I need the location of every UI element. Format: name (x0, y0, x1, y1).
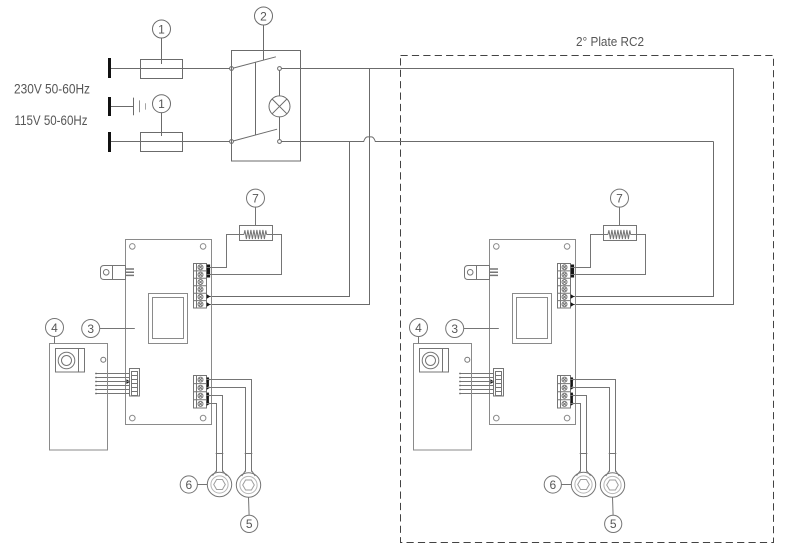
svg-text:1: 1 (158, 22, 165, 36)
wire L pin through fuse F1 to switch (111, 68, 230, 70)
mains terminal pin L (top, black bar) (108, 58, 111, 78)
earth wire (111, 106, 134, 108)
fuse F2 body (141, 133, 183, 152)
wire L: switch to 2nd plate (top rail) (281, 68, 733, 70)
switch mechanical link (255, 62, 257, 135)
leader line label 1 (F1) (161, 38, 163, 64)
indicator lamp wire lower (279, 117, 281, 140)
wire plate2 L: down to TB1-6 (571, 69, 734, 305)
label circle 1 (F2) (153, 95, 171, 113)
plate 1 module (46, 189, 282, 532)
switch pole 1 blade (233, 57, 276, 68)
mains terminal pin earth (middle, black bar) (108, 97, 111, 116)
switch pole 2 blade (233, 129, 277, 141)
switch pole 1 contact right (278, 67, 282, 71)
switch pole 1 contact left (230, 67, 234, 71)
fuse F1 body (141, 60, 183, 79)
svg-text:230V 50-60Hz: 230V 50-60Hz (14, 81, 90, 97)
mains terminal pin N (bottom, black bar) (108, 132, 111, 152)
wire N: switch to 2nd plate with hop over tap (281, 137, 713, 142)
wire N pin through fuse F2 to switch (111, 141, 230, 143)
svg-text:115V 50-60Hz: 115V 50-60Hz (15, 112, 88, 128)
switch pole 2 contact right (278, 140, 282, 144)
svg-text:2: 2 (260, 9, 267, 23)
switch pole 2 contact left (230, 140, 234, 144)
switch S1 (item 2) box (232, 51, 301, 162)
svg-text:2° Plate RC2: 2° Plate RC2 (576, 34, 644, 49)
earth symbol (134, 98, 146, 116)
indicator lamp wire upper (279, 70, 281, 96)
dashed enclosure 2nd plate RC2 (401, 56, 774, 543)
label circle 1 (F1) (153, 20, 171, 38)
wire plate2 N: down to TB1-5 (571, 142, 714, 297)
indicator lamp (269, 96, 290, 117)
leader line label 1 (F2) (161, 112, 163, 136)
leader line label 2 (263, 25, 265, 60)
svg-text:1: 1 (158, 97, 165, 111)
tap wire plate1 L: down to TB1-6 (207, 69, 370, 305)
tap wire plate1 N: down to TB1-5 (207, 142, 350, 297)
plate 2 module (RC2) (410, 189, 646, 532)
label circle 2 (255, 7, 273, 25)
